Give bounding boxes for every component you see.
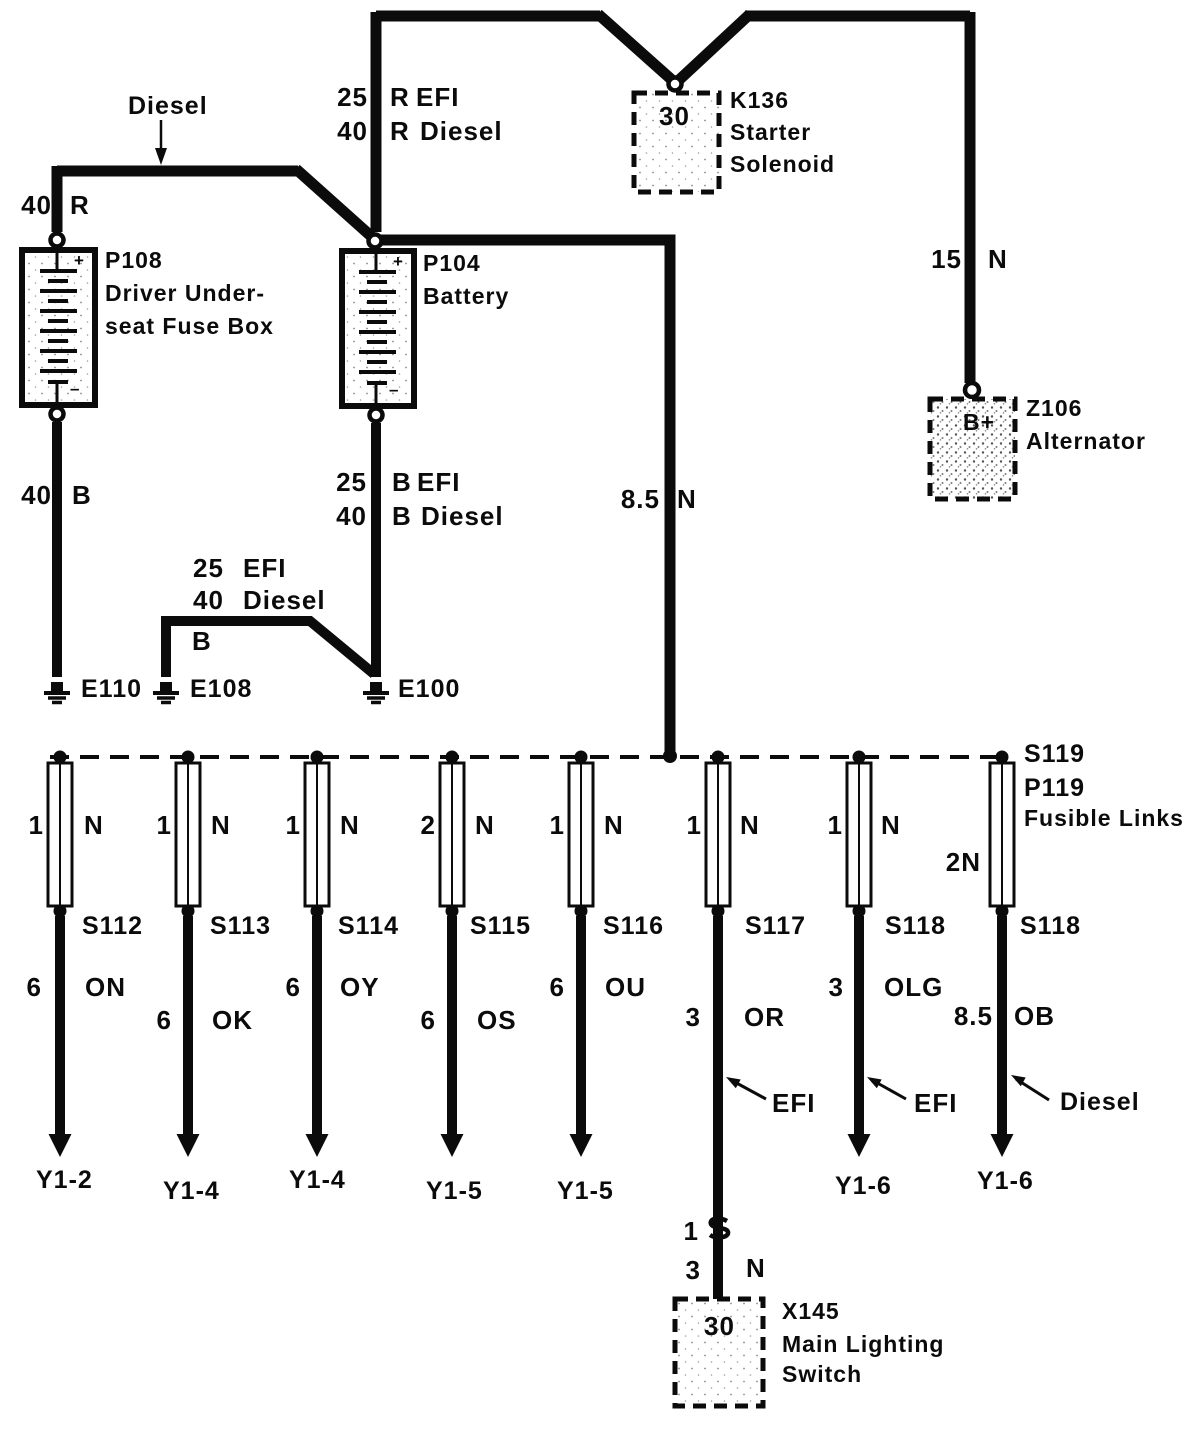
svg-text:S117: S117 (745, 912, 806, 940)
svg-text:30: 30 (704, 1311, 735, 1341)
label link5 1 N (550, 810, 624, 840)
svg-text:P108: P108 (105, 247, 163, 273)
svg-text:S115: S115 (470, 912, 531, 940)
label wire 6 OK (157, 1005, 253, 1035)
diesel arrow pointer (155, 120, 167, 165)
label link4 2 N (421, 810, 495, 840)
starter solenoid K136 box (634, 93, 719, 192)
svg-text:K136: K136 (730, 87, 789, 113)
label K136 Starter Solenoid (730, 87, 835, 177)
svg-text:N: N (604, 810, 624, 840)
wire diagonal into K136 (598, 14, 672, 80)
svg-text:OB: OB (1014, 1001, 1055, 1031)
callout EFI arrow on OLG wire (867, 1077, 957, 1118)
wire OU to Y1-5 (576, 916, 586, 1135)
svg-text:R: R (390, 82, 410, 112)
svg-text:N: N (211, 810, 231, 840)
label link6 1 N (687, 810, 760, 840)
wire diesel diagonal to battery junction (296, 169, 372, 237)
svg-text:2N: 2N (946, 847, 981, 877)
svg-text:40: 40 (21, 480, 52, 510)
svg-text:Alternator: Alternator (1026, 428, 1146, 454)
svg-text:1: 1 (550, 810, 565, 840)
svg-text:R: R (390, 116, 410, 146)
fuse box P108 (battery symbol) (22, 250, 95, 405)
wire right vertical 15 N to alternator (965, 12, 976, 383)
label link3 1 N (286, 810, 360, 840)
svg-text:Diesel: Diesel (421, 501, 504, 531)
svg-text:Diesel: Diesel (1060, 1088, 1140, 1116)
svg-text:40: 40 (193, 585, 224, 615)
svg-text:1: 1 (29, 810, 44, 840)
svg-text:OU: OU (605, 972, 646, 1002)
svg-text:P119: P119 (1024, 774, 1085, 802)
wire E108 branch (166, 621, 374, 677)
svg-text:EFI: EFI (417, 467, 460, 497)
wire ON to Y1-2 (55, 916, 65, 1135)
svg-text:3: 3 (686, 1002, 701, 1032)
wire OR to main lighting switch (713, 916, 723, 1299)
svg-text:Switch: Switch (782, 1361, 862, 1387)
svg-text:30: 30 (659, 101, 690, 131)
svg-text:40: 40 (21, 190, 52, 220)
svg-text:8.5: 8.5 (621, 484, 660, 514)
main lighting switch X145 box (675, 1299, 763, 1406)
label wire 6 OS (421, 1005, 517, 1035)
label wire 25 R EFI (337, 82, 459, 112)
label wire 40 R Diesel (337, 116, 503, 146)
fusible link 5 (S116) (569, 751, 593, 918)
svg-text:Y1-6: Y1-6 (977, 1167, 1034, 1195)
svg-text:S116: S116 (603, 912, 664, 940)
svg-text:N: N (340, 810, 360, 840)
ground E100 (363, 682, 389, 703)
label X145 Main Lighting Switch (782, 1298, 944, 1387)
wire diesel horizontal to fuse box (57, 166, 298, 177)
svg-text:Diesel: Diesel (243, 585, 326, 615)
label P108 Driver Under-seat Fuse Box (105, 247, 274, 339)
svg-text:S114: S114 (338, 912, 399, 940)
label P104 Battery (423, 250, 509, 309)
svg-text:N: N (677, 484, 697, 514)
svg-text:25: 25 (336, 467, 367, 497)
svg-text:B: B (392, 467, 412, 497)
label wire 40 R (21, 190, 90, 220)
svg-text:1: 1 (684, 1216, 699, 1246)
fusible link 8 (S118b) (990, 751, 1014, 918)
svg-text:25: 25 (193, 553, 224, 583)
node P108 top connector (51, 234, 64, 247)
label wire 15 N (931, 244, 1008, 274)
svg-text:EFI: EFI (243, 553, 286, 583)
fusible link 1 (S112) (48, 751, 72, 918)
svg-text:Driver Under-: Driver Under- (105, 280, 265, 306)
svg-text:+: + (393, 252, 403, 271)
wire OK to Y1-4 (183, 916, 193, 1135)
svg-text:S119: S119 (1024, 740, 1085, 768)
label link1 1 N (29, 810, 104, 840)
svg-text:OY: OY (340, 972, 380, 1002)
svg-text:1: 1 (286, 810, 301, 840)
wire 40 R drop to P108 (52, 166, 63, 232)
wire left vertical 25R to battery junction (371, 12, 382, 232)
svg-text:6: 6 (286, 972, 301, 1002)
svg-text:B: B (72, 480, 92, 510)
fusible link 7 (S118) (847, 751, 871, 918)
svg-text:Starter: Starter (730, 119, 811, 145)
label link7 1 N (828, 810, 901, 840)
svg-text:N: N (84, 810, 104, 840)
svg-text:S112: S112 (82, 912, 143, 940)
svg-text:Main Lighting: Main Lighting (782, 1331, 944, 1357)
svg-text:B+: B+ (963, 409, 995, 435)
label wire 6 OY (286, 972, 380, 1002)
wire OY to Y1-4 (312, 916, 322, 1135)
svg-text:N: N (475, 810, 495, 840)
label wire 6 OU (550, 972, 646, 1002)
svg-text:1: 1 (157, 810, 172, 840)
svg-text:R: R (70, 190, 90, 220)
fusible link 2 (S113) (176, 751, 200, 918)
svg-text:EFI: EFI (416, 82, 459, 112)
svg-text:E100: E100 (398, 675, 460, 703)
svg-text:Fusible Links: Fusible Links (1024, 805, 1184, 831)
svg-text:1: 1 (828, 810, 843, 840)
wire 40 B to ground E110 (52, 422, 62, 677)
wire top bus right segment (745, 11, 970, 22)
label S119 P119 Fusible Links (1024, 740, 1184, 831)
svg-text:Battery: Battery (423, 283, 509, 309)
svg-text:40: 40 (336, 501, 367, 531)
svg-text:seat Fuse Box: seat Fuse Box (105, 313, 274, 339)
label wire 3 OR (686, 1002, 785, 1032)
label Z106 Alternator (1026, 395, 1146, 454)
svg-text:E110: E110 (81, 675, 142, 703)
fusible link 3 (S114) (305, 751, 329, 918)
svg-text:Y1-2: Y1-2 (36, 1166, 93, 1194)
label wire 25 B EFI (336, 467, 460, 497)
wire dashed bus S119 (50, 755, 1007, 759)
svg-text:–: – (389, 380, 398, 399)
node P108 bottom connector (51, 408, 64, 421)
svg-text:40: 40 (337, 116, 368, 146)
svg-text:S118: S118 (885, 912, 946, 940)
label wire 8.5 N (621, 484, 697, 514)
svg-text:8.5: 8.5 (954, 1001, 993, 1031)
svg-text:OK: OK (212, 1005, 253, 1035)
svg-text:N: N (988, 244, 1008, 274)
svg-text:EFI: EFI (914, 1088, 957, 1118)
ground E108 (153, 682, 179, 703)
wire top bus left segment (376, 11, 600, 22)
svg-text:B: B (192, 626, 212, 656)
svg-text:6: 6 (421, 1005, 436, 1035)
callout EFI arrow on OR wire (726, 1077, 815, 1118)
svg-text:3: 3 (829, 972, 844, 1002)
svg-text:N: N (740, 810, 760, 840)
label wire 3 OLG (829, 972, 944, 1002)
label wire 8.5 OB (954, 1001, 1055, 1031)
svg-text:OR: OR (744, 1002, 785, 1032)
label link2 1 N (157, 810, 231, 840)
fusible link 6 (S117) (706, 751, 730, 918)
svg-text:6: 6 (27, 972, 42, 1002)
svg-text:2: 2 (421, 810, 436, 840)
svg-text:B: B (392, 501, 412, 531)
svg-text:N: N (881, 810, 901, 840)
svg-text:Y1-4: Y1-4 (163, 1177, 220, 1205)
svg-text:3: 3 (686, 1255, 701, 1285)
wire OLG to Y1-6 (854, 916, 864, 1135)
wire OS to Y1-5 (447, 916, 457, 1135)
svg-text:Y1-6: Y1-6 (835, 1172, 892, 1200)
wire battery top bus to 8.5N corner (380, 240, 670, 752)
wire 25B to ground E100 (371, 423, 381, 677)
label wire 25 EFI / 40 Diesel (E108 branch) (193, 553, 326, 615)
svg-text:6: 6 (157, 1005, 172, 1035)
label wire 6 ON (27, 972, 126, 1002)
node K136 pin 30 connector (669, 78, 682, 91)
svg-text:Diesel: Diesel (420, 116, 503, 146)
svg-text:Solenoid: Solenoid (730, 151, 835, 177)
svg-text:X145: X145 (782, 1298, 840, 1324)
svg-text:ON: ON (85, 972, 126, 1002)
svg-text:Y1-5: Y1-5 (426, 1177, 483, 1205)
svg-text:N: N (746, 1253, 766, 1283)
alternator Z106 box (930, 399, 1015, 499)
node junction 8.5N on bus (663, 749, 677, 763)
wire diagonal K136 to right bus (679, 14, 750, 80)
svg-text:S118: S118 (1020, 912, 1081, 940)
svg-text:P104: P104 (423, 250, 481, 276)
svg-text:S113: S113 (210, 912, 271, 940)
node P104 top connector (369, 235, 382, 248)
svg-text:15: 15 (931, 244, 962, 274)
svg-text:6: 6 (550, 972, 565, 1002)
node P104 bottom connector (370, 409, 383, 422)
callout Diesel arrow on OB wire (1011, 1075, 1140, 1116)
node Z106 B+ connector (965, 383, 979, 397)
svg-text:+: + (74, 251, 84, 270)
svg-text:25: 25 (337, 82, 368, 112)
splice connector 1 on OR wire (710, 1218, 728, 1237)
battery P104 (battery symbol) (342, 251, 414, 406)
svg-text:OLG: OLG (884, 972, 943, 1002)
label wire 3 N below splice (686, 1253, 766, 1285)
svg-text:Y1-4: Y1-4 (289, 1166, 346, 1194)
fusible link 4 (S115) (440, 751, 464, 918)
svg-text:–: – (70, 379, 79, 398)
svg-text:Y1-5: Y1-5 (557, 1177, 614, 1205)
svg-text:EFI: EFI (772, 1088, 815, 1118)
wire OB to Y1-6 (997, 916, 1007, 1135)
svg-text:Z106: Z106 (1026, 395, 1082, 421)
label wire 40 B (21, 480, 92, 510)
svg-text:Diesel: Diesel (128, 92, 208, 120)
ground E110 (44, 682, 70, 703)
svg-text:OS: OS (477, 1005, 517, 1035)
svg-text:1: 1 (687, 810, 702, 840)
label wire 40 B Diesel (336, 501, 504, 531)
svg-text:E108: E108 (190, 675, 252, 703)
